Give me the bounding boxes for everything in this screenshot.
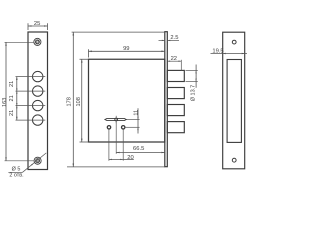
svg-text:2 отв.: 2 отв. (9, 173, 23, 179)
svg-text:21: 21 (9, 110, 15, 116)
svg-text:108: 108 (76, 97, 82, 106)
svg-text:21: 21 (9, 81, 15, 87)
svg-text:178: 178 (67, 97, 73, 106)
svg-text:21: 21 (9, 95, 15, 101)
svg-text:Ø 5: Ø 5 (12, 167, 21, 173)
svg-text:25: 25 (34, 21, 40, 27)
svg-text:11: 11 (133, 110, 139, 116)
svg-text:20: 20 (127, 155, 133, 161)
svg-text:66.5: 66.5 (133, 146, 144, 152)
svg-text:22: 22 (171, 56, 177, 62)
svg-text:99: 99 (123, 46, 129, 52)
svg-text:163: 163 (2, 98, 8, 107)
svg-text:Ø 13.7: Ø 13.7 (191, 85, 197, 102)
